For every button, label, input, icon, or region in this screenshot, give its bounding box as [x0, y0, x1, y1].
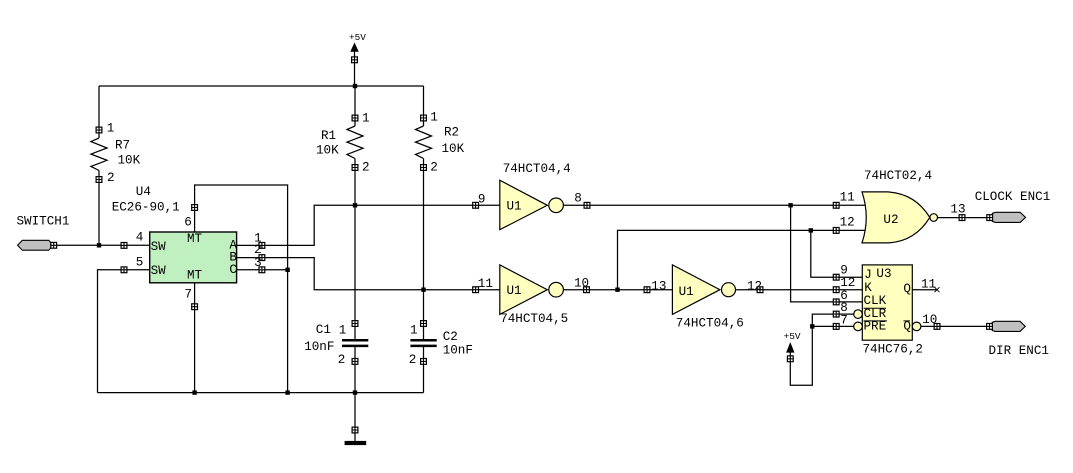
junction node +5V/R1 [353, 84, 357, 88]
svg-text:7: 7 [840, 314, 848, 328]
pin U3.9 J [833, 274, 839, 280]
svg-text:K: K [864, 281, 872, 295]
svg-text:C1: C1 [316, 323, 331, 337]
pin U3.8 CLR [833, 311, 839, 317]
svg-text:U1: U1 [507, 284, 522, 298]
wire R7 bottom lead to SWITCH1 node [98, 171, 100, 246]
junction node C/MT [285, 268, 289, 272]
svg-text:CLOCK ENC1: CLOCK ENC1 [975, 190, 1051, 204]
svg-text:5: 5 [136, 255, 144, 269]
svg-text:SW: SW [151, 240, 167, 254]
junction U1 pin10 branch [615, 288, 619, 292]
svg-text:SWITCH1: SWITCH1 [17, 215, 70, 229]
pin U4.6 [192, 205, 198, 211]
wire +5V stem [354, 52, 356, 87]
svg-text:4: 4 [136, 230, 144, 244]
wire R2 top lead [423, 86, 425, 126]
encoder U4 [150, 232, 237, 283]
wire +5V to U3 PRE and CLR [790, 314, 855, 385]
pin U1.11 [473, 287, 479, 293]
wire R7 top lead [98, 86, 100, 138]
pin +5V right [787, 356, 793, 362]
svg-text:MT: MT [187, 269, 203, 283]
svg-text:C: C [229, 263, 237, 277]
capacitor C2 [410, 340, 436, 346]
pin U1.12 [757, 287, 763, 293]
wire +5V top rail [99, 85, 424, 87]
pin R1.1 [352, 115, 358, 121]
svg-text:2: 2 [430, 161, 438, 175]
pin U4.5 [121, 267, 127, 273]
svg-text:C2: C2 [443, 330, 458, 344]
pin U3.6 CLK [833, 299, 839, 305]
label U3 Qbar [903, 320, 911, 334]
junction node A/R1 [353, 203, 357, 207]
svg-text:U1: U1 [679, 285, 694, 299]
inverter U1 74HCT04,5 [500, 265, 564, 315]
connector SWITCH1 [18, 240, 51, 250]
svg-text:SW: SW [151, 264, 167, 278]
svg-text:2: 2 [338, 353, 346, 367]
wire R1 top lead [354, 86, 356, 126]
svg-text:+5V: +5V [349, 32, 366, 43]
wire ground stem [354, 393, 356, 441]
svg-text:Q: Q [903, 282, 911, 296]
svg-text:9: 9 [478, 193, 486, 207]
svg-text:U2: U2 [883, 213, 898, 227]
flip-flop U3 74HC76 [854, 265, 921, 340]
svg-text:13: 13 [651, 279, 666, 293]
wire C1 to ground bus [354, 347, 356, 393]
svg-text:74HCT04,4: 74HCT04,4 [503, 162, 571, 176]
svg-text:EC26-90,1: EC26-90,1 [112, 201, 180, 215]
svg-text:R7: R7 [115, 138, 130, 152]
pin C2.1 [421, 321, 427, 327]
junction pin12/J branch [809, 228, 813, 232]
pin R7.1 [96, 127, 102, 133]
svg-text:74HCT02,4: 74HCT02,4 [864, 169, 932, 183]
wire branch to U3 J [811, 230, 863, 277]
pin U4.3 [259, 267, 265, 273]
svg-text:DIR ENC1: DIR ENC1 [989, 344, 1049, 358]
wire R2 bottom through node B to C2 [423, 159, 425, 340]
pin U4.2 [259, 255, 265, 261]
pin ground [352, 427, 358, 433]
inverter U1 74HCT04,6 [672, 265, 735, 315]
wire U3 PRE stub [812, 325, 855, 327]
svg-text:1: 1 [410, 324, 418, 338]
wire C2 to ground bus [423, 347, 425, 393]
resistor R2 [416, 126, 432, 159]
wire U2 pin13 to CLOCK connector [937, 217, 992, 219]
svg-text:13: 13 [950, 202, 965, 216]
pin U3.10 [934, 324, 940, 330]
pin U2.13 [959, 215, 965, 221]
junction pin8/CLK branch [788, 203, 792, 207]
svg-text:10K: 10K [118, 154, 141, 168]
label U3 CLR [864, 307, 887, 321]
svg-text:10: 10 [574, 276, 589, 290]
pin DIR connector [987, 324, 993, 330]
pin U3.12 K [833, 287, 839, 293]
svg-text:1: 1 [362, 112, 370, 126]
svg-text:1: 1 [339, 324, 347, 338]
svg-text:1: 1 [107, 122, 115, 136]
pin U1.9 [473, 202, 479, 208]
pin R7.2 [96, 177, 102, 183]
svg-text:11: 11 [921, 277, 936, 291]
pin U1.10 [584, 287, 590, 293]
pin U1.13 [644, 287, 650, 293]
pin U3.7 PRE [833, 324, 839, 330]
wire node B to U1 pin11 [237, 258, 500, 290]
pin +5V top [352, 57, 358, 63]
resistor R7 [91, 138, 107, 171]
svg-text:12: 12 [747, 279, 762, 293]
junction ground bus pin7 [192, 390, 196, 394]
wire U4 pin5 to ground bus [98, 270, 150, 393]
wire U1 pin12 to U3 K [736, 289, 863, 291]
svg-text:U1: U1 [507, 199, 522, 213]
svg-text:6: 6 [184, 216, 192, 230]
svg-text:11: 11 [840, 190, 855, 204]
junction node B/R2 [421, 288, 425, 292]
svg-text:U3: U3 [876, 267, 891, 281]
wire SWITCH1 to U4 pin4 [57, 244, 150, 246]
pin C1.1 [352, 321, 358, 327]
wire U4 pin6 MT to ground [195, 185, 288, 393]
pin U1.8 [584, 202, 590, 208]
pin U2.11 [833, 202, 839, 208]
wire U4 pin7 MT to ground bus [194, 283, 196, 393]
svg-text:1: 1 [430, 111, 438, 125]
svg-text:10: 10 [922, 313, 937, 327]
power +5V top arrow [351, 43, 358, 51]
capacitor C1 [342, 340, 368, 346]
pin R2.2 [421, 165, 427, 171]
pin U4.1 [259, 243, 265, 249]
pin R2.1 [421, 115, 427, 121]
svg-text:2: 2 [409, 353, 417, 367]
svg-text:10nF: 10nF [304, 340, 334, 354]
svg-text:11: 11 [478, 277, 493, 291]
wire R1 bottom through node A to C1 [354, 159, 356, 340]
pin U2.12 [833, 228, 839, 234]
svg-text:74HCT04,5: 74HCT04,5 [500, 312, 568, 326]
pin U4.7 [192, 304, 198, 310]
wire U1 pin10 to U1 pin13 [563, 289, 672, 291]
wire ground bus [98, 392, 424, 394]
no-connect marker pin11 [935, 287, 940, 292]
svg-text:12: 12 [840, 215, 855, 229]
svg-text:2: 2 [254, 243, 262, 257]
ground [345, 441, 367, 445]
nor gate U2 74HCT02 [862, 192, 938, 243]
power +5V right arrow [787, 343, 794, 352]
svg-text:10nF: 10nF [443, 343, 473, 357]
wire U3 Q pin11 stub [912, 289, 937, 291]
wire branch to U3 CLK [791, 205, 863, 302]
wire node A to U1 pin9 [237, 205, 500, 245]
svg-text:U4: U4 [136, 185, 151, 199]
wire U3 Qbar pin10 to DIR connector [921, 325, 993, 327]
svg-text:PRE: PRE [864, 320, 887, 334]
connector DIR ENC1 [992, 321, 1025, 331]
svg-text:74HCT04,6: 74HCT04,6 [676, 317, 744, 331]
connector CLOCK ENC1 [992, 212, 1025, 222]
svg-text:MT: MT [187, 232, 203, 246]
pin CLOCK connector [987, 215, 993, 221]
svg-text:2: 2 [362, 161, 370, 175]
svg-text:CLK: CLK [864, 294, 887, 308]
wire U1 pin8 to U2 pin11 [563, 204, 866, 206]
svg-text:R1: R1 [321, 129, 336, 143]
op... inverter U1 74HCT04,4 [500, 180, 564, 230]
svg-text:10K: 10K [316, 144, 339, 158]
resistor R1 [347, 126, 363, 159]
pin R1.2 [352, 165, 358, 171]
svg-text:R2: R2 [444, 126, 459, 140]
svg-text:Q: Q [903, 320, 911, 334]
svg-text:74HC76,2: 74HC76,2 [863, 343, 923, 357]
junction node SWITCH1/R7/pin4 [97, 243, 101, 247]
wire node C to ground branch [237, 269, 288, 271]
svg-text:+5V: +5V [784, 331, 801, 342]
svg-text:3: 3 [254, 256, 262, 270]
svg-text:7: 7 [185, 288, 193, 302]
junction ground bus MT [285, 390, 289, 394]
pin C1.2 [352, 359, 358, 365]
label U3 PRE [864, 320, 888, 334]
wire branch to U2 pin12 [618, 230, 867, 289]
junction ground bus C1 [353, 390, 357, 394]
junction +5V/PRE [810, 324, 814, 328]
svg-text:2: 2 [107, 171, 115, 185]
pin SWITCH1 [51, 242, 57, 248]
pin U4.4 [121, 243, 127, 249]
svg-text:10K: 10K [442, 142, 465, 156]
pin C2.2 [421, 359, 427, 365]
svg-text:8: 8 [574, 191, 582, 205]
